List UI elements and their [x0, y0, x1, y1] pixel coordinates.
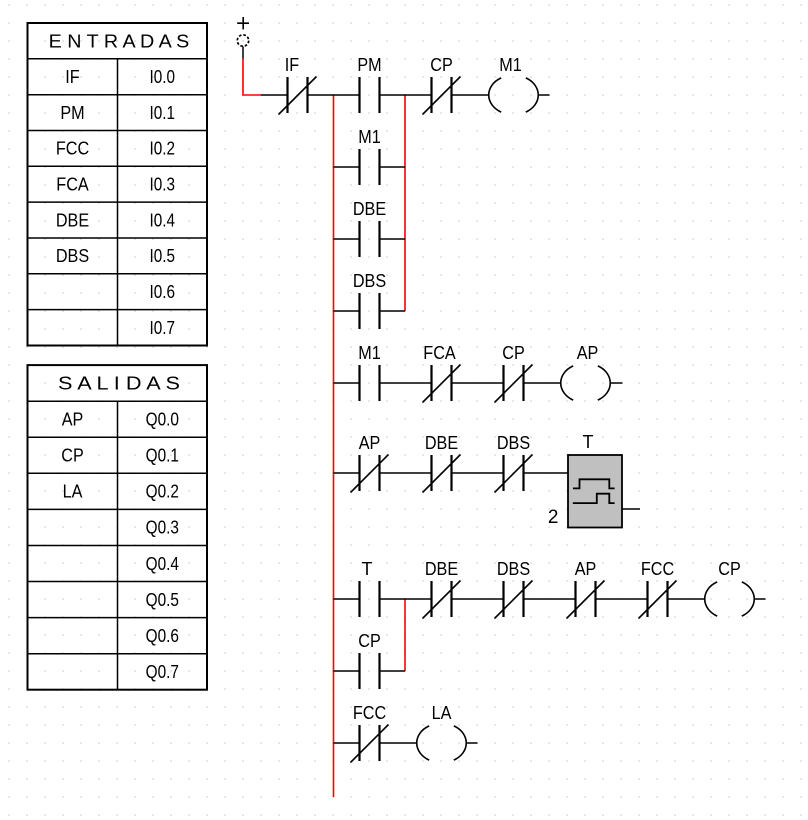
red left power rail — [333, 95, 335, 797]
svg-text:DBS: DBS — [353, 271, 386, 291]
contact M1 NO branch — [360, 149, 380, 185]
wire branch DBE left — [334, 238, 360, 240]
svg-text:FCC: FCC — [56, 139, 89, 159]
red branch rail right of PM — [404, 95, 406, 311]
svg-text:CP: CP — [61, 446, 84, 466]
coil LA — [417, 726, 467, 760]
contact M1 NO rung2 — [360, 365, 380, 401]
contact AP NC rung3 — [360, 455, 380, 491]
contact DBE NO branch — [360, 221, 380, 257]
svg-text:DBE: DBE — [56, 210, 89, 230]
svg-text:PM: PM — [357, 55, 381, 75]
svg-text:I0.5: I0.5 — [150, 246, 176, 266]
table SALIDAS frame — [28, 365, 208, 690]
wire rung3 seg3 — [452, 472, 504, 474]
svg-text:DBS: DBS — [497, 433, 530, 453]
wire rung5 seg2 — [380, 742, 418, 744]
svg-text:DBE: DBE — [425, 559, 458, 579]
wire rung1 seg3 — [380, 94, 432, 96]
contact CP NO branch — [360, 653, 380, 689]
svg-text:Q0.7: Q0.7 — [146, 662, 179, 682]
wire branch DBE right — [380, 238, 406, 240]
contact DBS NO branch — [360, 293, 380, 329]
contact FCC NC rung4 — [648, 581, 668, 617]
svg-text:I0.4: I0.4 — [150, 210, 176, 230]
svg-text:DBE: DBE — [353, 199, 386, 219]
wire rung4 seg4 — [524, 598, 576, 600]
contact DBE NC rung4 — [432, 581, 452, 617]
red supply wire L-corner — [243, 59, 261, 95]
svg-text:I0.3: I0.3 — [150, 175, 176, 195]
wire rung3 seg1 — [334, 472, 360, 474]
svg-text:IF: IF — [65, 67, 79, 87]
svg-text:AP: AP — [575, 559, 597, 579]
svg-text:FCA: FCA — [423, 343, 455, 363]
svg-text:M1: M1 — [358, 343, 381, 363]
wire rung4 seg1 — [334, 598, 360, 600]
svg-text:I0.0: I0.0 — [150, 67, 176, 87]
svg-text:AP: AP — [359, 433, 381, 453]
wire rung5 stub — [466, 742, 478, 744]
timer waveform lower — [573, 494, 615, 503]
wire rung2 seg4 — [524, 382, 562, 384]
wire branch M1 left — [334, 166, 360, 168]
svg-text:I0.7: I0.7 — [150, 318, 176, 338]
wire rung1 seg2 — [308, 94, 360, 96]
svg-text:Q0.2: Q0.2 — [146, 482, 179, 502]
wire branch M1 right — [380, 166, 406, 168]
wire rung2 seg1 — [334, 382, 360, 384]
svg-text:DBS: DBS — [497, 559, 530, 579]
svg-text:CP: CP — [358, 631, 381, 651]
svg-text:Q0.1: Q0.1 — [146, 446, 179, 466]
contact PM NO — [360, 77, 380, 113]
svg-text:AP: AP — [577, 343, 599, 363]
svg-text:FCC: FCC — [641, 559, 674, 579]
timer waveform upper — [573, 479, 615, 488]
svg-text:I0.1: I0.1 — [150, 103, 176, 123]
contact FCA NC — [432, 365, 452, 401]
wire rung2 seg2 — [380, 382, 432, 384]
svg-text:I0.6: I0.6 — [150, 282, 176, 302]
contact DBS NC rung3 — [504, 455, 524, 491]
svg-text:FCA: FCA — [56, 175, 88, 195]
svg-text:AP: AP — [62, 410, 84, 430]
contact DBE NC rung3 — [432, 455, 452, 491]
svg-text:CP: CP — [430, 55, 453, 75]
coil AP — [561, 366, 611, 400]
wire rung4 seg2 — [380, 598, 432, 600]
wire rung1 stub — [538, 94, 550, 96]
svg-text:LA: LA — [63, 482, 83, 502]
contact CP NC rung2 — [504, 365, 524, 401]
svg-text:DBS: DBS — [56, 246, 89, 266]
svg-text:DBE: DBE — [425, 433, 458, 453]
svg-text:Q0.4: Q0.4 — [146, 554, 179, 574]
svg-text:T: T — [362, 559, 373, 579]
wire from terminal — [242, 47, 244, 59]
wire rung3 seg2 — [380, 472, 432, 474]
contact DBS NC rung4 — [504, 581, 524, 617]
power terminal circle — [237, 35, 248, 46]
red branch rail for CP parallel — [404, 599, 406, 671]
coil CP — [705, 582, 755, 616]
wire rung4 stub — [754, 598, 766, 600]
svg-text:I0.2: I0.2 — [150, 139, 176, 159]
wire rung2 stub — [610, 382, 623, 384]
wire rung1 seg4 — [452, 94, 490, 96]
wire branch DBS left — [334, 310, 360, 312]
wire rung2 seg3 — [452, 382, 504, 384]
svg-text:Q0.5: Q0.5 — [146, 590, 179, 610]
coil M1 — [489, 78, 539, 112]
contact IF NC — [288, 77, 308, 113]
svg-text:M1: M1 — [358, 127, 381, 147]
wire rung4 seg3 — [452, 598, 504, 600]
svg-text:Q0.0: Q0.0 — [146, 410, 179, 430]
contact FCC NC rung5 — [360, 725, 380, 761]
svg-text:S A L I D A S: S A L I D A S — [58, 374, 180, 394]
wire branch CP right — [380, 670, 406, 672]
svg-text:PM: PM — [60, 103, 84, 123]
contact T NO rung4 — [360, 581, 380, 617]
timer T box — [568, 455, 622, 528]
wire timer output — [622, 508, 640, 510]
wire rung1 seg1 — [261, 94, 288, 96]
wire branch DBS right — [380, 310, 406, 312]
wire rung4 seg5 — [596, 598, 648, 600]
svg-text:M1: M1 — [499, 55, 522, 75]
svg-text:E N T R A D A S: E N T R A D A S — [49, 31, 190, 51]
contact AP NC rung4 — [576, 581, 596, 617]
wire rung5 seg1 — [334, 742, 360, 744]
svg-text:T: T — [583, 432, 594, 452]
power terminal plus — [237, 17, 249, 29]
wire rung4 seg6 — [668, 598, 706, 600]
svg-text:LA: LA — [432, 703, 452, 723]
svg-text:IF: IF — [285, 55, 299, 75]
wire rung3 seg4 — [524, 472, 569, 474]
svg-text:2: 2 — [548, 507, 559, 528]
table ENTRADAS frame — [28, 23, 208, 346]
svg-text:Q0.6: Q0.6 — [146, 626, 179, 646]
svg-text:FCC: FCC — [353, 703, 386, 723]
contact CP NC rung1 — [432, 77, 452, 113]
svg-text:Q0.3: Q0.3 — [146, 518, 179, 538]
wire branch CP left — [334, 670, 360, 672]
svg-text:CP: CP — [502, 343, 525, 363]
svg-text:CP: CP — [718, 559, 741, 579]
